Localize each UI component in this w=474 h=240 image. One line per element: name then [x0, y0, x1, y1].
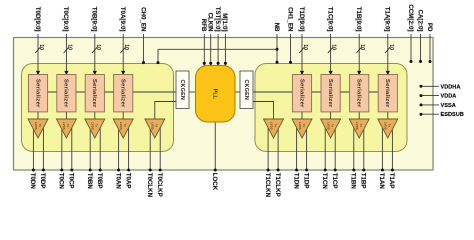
svg-text:T0D[9:0]: T0D[9:0] [34, 7, 41, 32]
svg-text:LOCK: LOCK [211, 173, 218, 191]
pad dot LOCK [214, 169, 217, 172]
svg-text:Serializer: Serializer [34, 79, 40, 108]
svg-text:PLL: PLL [212, 89, 218, 100]
wire: serializer T0A output to LVDS driver [122, 112, 124, 121]
wire: input PD [429, 34, 431, 62]
svg-text:T0DN: T0DN [29, 173, 36, 190]
svg-text:T0CN: T0CN [58, 173, 65, 190]
wire: serializer T0C output to LVDS driver [65, 112, 67, 121]
wire: ch1 clock bus CKGEN1 to serializers [253, 91, 386, 93]
serializer block U1 (T0D channel) [28, 75, 47, 112]
svg-text:LVDS: LVDS [34, 122, 38, 130]
wire: data bus input T0C[9:0] with width-10 slash [65, 34, 67, 75]
wire: serializer T0D output to LVDS driver [37, 112, 39, 121]
svg-text:Serializer: Serializer [120, 79, 126, 108]
svg-text:CH1_EN: CH1_EN [286, 7, 293, 32]
power pin VDDA [421, 95, 439, 97]
svg-text:LVDS: LVDS [119, 122, 123, 130]
serializer block U5 (T1D channel) [292, 75, 311, 112]
wire: CKGEN0 to PLL [189, 91, 196, 93]
svg-text:Tx: Tx [388, 124, 392, 128]
channel 0 block (left rounded region) [22, 64, 174, 152]
LVDS Tx driver T0D [28, 119, 48, 138]
svg-text:10: 10 [359, 44, 365, 50]
svg-text:Tx: Tx [123, 124, 127, 128]
LVDS Tx driver T1B [349, 119, 369, 138]
svg-text:T0AN: T0AN [114, 173, 121, 190]
svg-text:Tx: Tx [38, 124, 42, 128]
svg-text:LVDS: LVDS [298, 122, 302, 130]
wire: T0C differential output pair [61, 127, 63, 170]
svg-text:T1BN: T1BN [350, 173, 357, 190]
svg-text:RFB: RFB [200, 19, 207, 32]
svg-text:T1A[9:0]: T1A[9:0] [384, 7, 391, 32]
svg-text:T1CN: T1CN [321, 173, 328, 190]
svg-text:Serializer: Serializer [91, 79, 97, 108]
pad dots T1DN/T1DP [295, 169, 298, 172]
svg-text:T0C[9:0]: T0C[9:0] [62, 7, 69, 32]
wire: T0CLK differential output pair [149, 127, 151, 170]
pad dots T0CN/T0CP [60, 169, 63, 172]
wire: PLL input M[1:0] [224, 34, 226, 66]
svg-text:Tx: Tx [155, 124, 159, 128]
svg-text:T1AN: T1AN [378, 173, 385, 190]
svg-text:CLKIN: CLKIN [207, 13, 214, 32]
svg-text:T1CLKN: T1CLKN [264, 173, 271, 198]
svg-text:10: 10 [95, 44, 101, 50]
pad dots T0DN/T0DP [32, 169, 35, 172]
svg-text:T1D[9:0]: T1D[9:0] [298, 7, 305, 32]
wire: T1C differential output pair [324, 127, 326, 170]
svg-text:LVDS: LVDS [269, 122, 273, 130]
svg-text:ESDSUB: ESDSUB [441, 112, 464, 118]
LVDS Tx driver T1D [292, 119, 312, 138]
wire: PLL input CLKIN [210, 34, 212, 66]
svg-text:T1DP: T1DP [302, 173, 309, 189]
svg-text:T0AP: T0AP [124, 173, 131, 189]
wire: LOCK output from PLL [214, 122, 216, 170]
wire: data bus input T0B[9:0] with width-10 slash [94, 34, 96, 75]
svg-text:CH0_EN: CH0_EN [139, 7, 146, 32]
wire: PLL input TST[5:0] [217, 34, 219, 66]
svg-text:10: 10 [66, 44, 72, 50]
svg-text:CKGEN: CKGEN [243, 79, 249, 100]
wire: data bus input T0D[9:0] with width-10 slash [37, 34, 39, 75]
svg-text:Serializer: Serializer [327, 79, 333, 108]
wire: PLL input RFB [203, 34, 205, 66]
wire: CKGEN1 to ch1 clock driver [253, 102, 274, 122]
chip body outline [14, 38, 434, 171]
PLL block [196, 66, 236, 123]
LVDS Tx driver T1CLK [264, 119, 284, 138]
pad dots T0CLKN/T0CLKP [149, 169, 152, 172]
svg-text:Tx: Tx [330, 124, 334, 128]
pad dots T1CLKN/T1CLKP [267, 169, 270, 172]
svg-text:10: 10 [388, 44, 394, 50]
svg-text:PD: PD [426, 23, 433, 32]
LVDS Tx driver T1A [378, 119, 398, 138]
wire: serializer T1A output to LVDS driver [387, 112, 389, 121]
LVDS Tx driver T0A [113, 119, 133, 138]
wire: T1CLK differential output pair [267, 127, 269, 170]
wire: serializer T1C output to LVDS driver [330, 112, 332, 121]
wire: data bus input T1D[9:0] with width-10 slash [301, 34, 303, 75]
wire: T0B differential output pair [89, 127, 91, 170]
svg-text:Tx: Tx [302, 124, 306, 128]
LVDS Tx driver T1C [321, 119, 341, 138]
svg-text:10: 10 [123, 44, 129, 50]
svg-text:T0DP: T0DP [39, 173, 46, 189]
wire: serializer T0B output to LVDS driver [94, 112, 96, 121]
svg-text:T1AP: T1AP [388, 173, 395, 189]
svg-text:Tx: Tx [273, 124, 277, 128]
svg-text:LVDS: LVDS [355, 122, 359, 130]
svg-text:VDDA: VDDA [441, 94, 457, 100]
svg-text:10: 10 [331, 44, 337, 50]
wire: serializer T1D output to LVDS driver [301, 112, 303, 121]
wire: T1B differential output pair [353, 127, 355, 170]
svg-text:T0BP: T0BP [96, 173, 103, 189]
wire: CKGEN0 to ch0 clock driver [155, 102, 176, 122]
svg-text:10: 10 [38, 44, 44, 50]
wire: T1D differential output pair [296, 127, 298, 170]
wire: ch0 clock bus CKGEN0 to serializers [40, 91, 176, 93]
pad dots T0AN/T0AP [117, 169, 120, 172]
svg-text:T0CP: T0CP [68, 173, 75, 189]
wire: data bus input T0A[9:0] with width-10 slash [122, 34, 124, 75]
wire: CKGEN1 to PLL [235, 91, 240, 93]
svg-text:T0B[9:0]: T0B[9:0] [91, 7, 98, 32]
svg-text:Tx: Tx [95, 124, 99, 128]
power pin VSSA [421, 104, 439, 106]
LVDS Tx driver T0B [85, 119, 105, 138]
svg-text:T1DN: T1DN [292, 173, 299, 190]
svg-text:NB: NB [273, 23, 280, 32]
wire: CH0_EN input [143, 34, 145, 63]
wire: NB input and branch to both channels [276, 34, 278, 63]
CKGEN block ch1 [240, 71, 253, 109]
svg-text:CCM[2:0]: CCM[2:0] [407, 4, 414, 31]
serializer block U3 (T0B channel) [85, 75, 104, 112]
serializer block U7 (T1B channel) [350, 75, 369, 112]
svg-text:T1C[9:0]: T1C[9:0] [326, 7, 333, 32]
pad dots T0BN/T0BP [89, 169, 92, 172]
serializer block U8 (T1A channel) [378, 75, 397, 112]
wire: input CA[2:0] [420, 34, 422, 62]
svg-text:TST[5:0]: TST[5:0] [214, 7, 221, 32]
svg-text:10: 10 [302, 44, 308, 50]
wire: T1A differential output pair [381, 127, 383, 170]
serializer block U6 (T1C channel) [321, 75, 340, 112]
pad dots T1BN/T1BP [352, 169, 355, 172]
CKGEN block ch0 [176, 71, 189, 109]
LVDS Tx driver T0CLK [145, 119, 165, 138]
channel 1 block (right rounded region) [255, 64, 407, 152]
power pin ESDSUB [421, 113, 439, 115]
svg-text:CA[2:0]: CA[2:0] [416, 9, 423, 31]
svg-text:T0CLKN: T0CLKN [146, 173, 153, 198]
svg-text:M[1:0]: M[1:0] [221, 13, 228, 31]
svg-text:Tx: Tx [66, 124, 70, 128]
wire: data bus input T1B[9:0] with width-10 slash [358, 34, 360, 75]
svg-text:LVDS: LVDS [151, 122, 155, 130]
svg-text:LVDS: LVDS [326, 122, 330, 130]
svg-text:T1B[9:0]: T1B[9:0] [355, 7, 362, 32]
svg-text:LVDS: LVDS [91, 122, 95, 130]
LVDS Tx driver T0C [56, 119, 76, 138]
wire: T0D differential output pair [32, 127, 34, 170]
svg-text:T1CP: T1CP [331, 173, 338, 189]
wire: CH1_EN input [290, 34, 292, 62]
wire: data bus input T1A[9:0] with width-10 slash [387, 34, 389, 75]
svg-text:VDDHA: VDDHA [441, 84, 461, 90]
svg-text:T1CLKP: T1CLKP [274, 173, 281, 197]
svg-text:LVDS: LVDS [62, 122, 66, 130]
svg-text:T0CLKP: T0CLKP [156, 173, 163, 197]
wire: data bus input T1C[9:0] with width-10 slash [330, 34, 332, 75]
serializer block U4 (T0A channel) [114, 75, 133, 112]
wire: input CCM[2:0] [410, 34, 412, 62]
svg-text:Serializer: Serializer [63, 79, 69, 108]
wire: T0A differential output pair [118, 127, 120, 170]
wire: serializer T1B output to LVDS driver [358, 112, 360, 121]
svg-text:LVDS: LVDS [384, 122, 388, 130]
svg-text:Serializer: Serializer [298, 79, 304, 108]
svg-text:T1BP: T1BP [360, 173, 367, 189]
svg-text:VSSA: VSSA [441, 103, 456, 109]
svg-text:Tx: Tx [359, 124, 363, 128]
serializer block U2 (T0C channel) [57, 75, 76, 112]
svg-text:Serializer: Serializer [384, 79, 390, 108]
svg-text:T0BN: T0BN [86, 173, 93, 190]
svg-text:CKGEN: CKGEN [179, 79, 185, 100]
svg-text:T0A[9:0]: T0A[9:0] [119, 7, 126, 32]
pad dots T1AN/T1AP [381, 169, 384, 172]
svg-text:Serializer: Serializer [356, 79, 362, 108]
power pin VDDHA [421, 85, 439, 87]
pad dots T1CN/T1CP [324, 169, 327, 172]
